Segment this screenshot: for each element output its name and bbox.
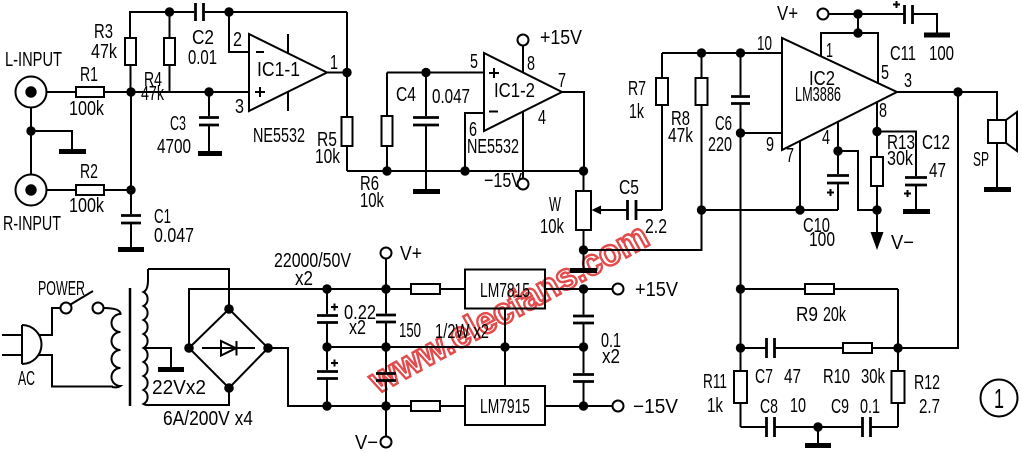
wire C2 to output drop [205, 11, 347, 13]
AC plug [2, 325, 42, 364]
node input ground tap [26, 126, 35, 135]
resistor R10 [775, 343, 898, 353]
capacitor 22000/50V lower [317, 347, 338, 406]
svg-text:C12: C12 [922, 132, 950, 154]
resistor R9 [741, 284, 899, 294]
svg-text:9: 9 [766, 134, 774, 156]
svg-text:x2: x2 [602, 346, 620, 368]
svg-text:8: 8 [527, 53, 535, 75]
resistor R5 [342, 73, 353, 172]
svg-text:1: 1 [994, 383, 1004, 414]
wire center tap [144, 348, 171, 367]
wire pin2 jog [229, 12, 249, 52]
svg-text:6A/200V x4: 6A/200V x4 [163, 408, 253, 430]
svg-text:C11: C11 [890, 43, 916, 65]
wire pin6 jog [465, 113, 484, 171]
node pin4 [833, 146, 842, 155]
ground C12 [903, 209, 930, 214]
resistor 150 upper [411, 284, 465, 294]
svg-text:2.2: 2.2 [645, 216, 667, 238]
node A junction R1/R3 [126, 87, 135, 96]
op-amp U IC2 LM3886 [782, 38, 897, 150]
wire pin9 [741, 132, 783, 134]
resistor R12 [892, 348, 905, 427]
resistor 150 lower [411, 401, 465, 411]
wire LM7915 gnd stem [504, 347, 506, 386]
svg-text:4700: 4700 [157, 136, 191, 158]
ground speaker [984, 187, 1011, 192]
capacitor C10 [827, 151, 849, 210]
resistor R1 [76, 87, 104, 97]
svg-text:V+: V+ [777, 3, 798, 25]
node filter cap bottom [322, 401, 331, 410]
ground input [59, 149, 86, 154]
svg-text:47: 47 [929, 160, 946, 182]
wire V+ terminal stem [385, 259, 387, 290]
wire secondary top to bridge [148, 269, 229, 309]
wire plug bottom [39, 355, 114, 387]
wire LM7815 gnd stem [504, 309, 506, 348]
node V+ stem [381, 284, 390, 293]
svg-text:R12: R12 [914, 372, 940, 394]
wire R2 to bus [104, 189, 131, 191]
svg-text:C5: C5 [619, 177, 639, 199]
wire pin4 [837, 122, 839, 151]
ground C4 [413, 189, 440, 194]
power V- arrow [871, 210, 884, 250]
wire L jack to R1 [47, 91, 77, 93]
svg-text:47k: 47k [141, 83, 165, 105]
svg-text:SP: SP [973, 149, 989, 171]
svg-text:7: 7 [786, 145, 794, 167]
R input jack J2 [16, 175, 47, 206]
svg-text:1k: 1k [629, 101, 645, 123]
svg-text:+15V: +15V [540, 27, 583, 49]
svg-text:C6: C6 [715, 113, 732, 135]
L input jack J1 [16, 77, 47, 108]
wire V+ rail [829, 13, 905, 15]
wire output [897, 91, 958, 93]
capacitor C12 [877, 132, 927, 210]
capacitor C3 [199, 92, 219, 151]
wire mid rail [327, 346, 584, 348]
svg-text:−15V: −15V [484, 170, 523, 192]
capacitor C8 [741, 417, 819, 437]
svg-text:5: 5 [881, 62, 889, 84]
svg-text:IC1-2: IC1-2 [494, 80, 535, 102]
wire R jack to R2 [47, 189, 77, 191]
wire pin1 pin5 V+ [821, 14, 878, 83]
wire ground return [584, 210, 702, 250]
wire V- terminal stem [385, 406, 387, 437]
svg-text:150: 150 [399, 320, 421, 342]
svg-text:R7: R7 [628, 78, 646, 100]
svg-text:x2: x2 [349, 317, 366, 339]
wire jack bus [30, 108, 32, 175]
svg-text:7: 7 [558, 70, 566, 92]
wire secondary bottom to bridge [148, 388, 229, 405]
wire bridge right to V- rail [268, 348, 411, 406]
node IC1-1 output [342, 68, 351, 77]
svg-text:100k: 100k [69, 98, 105, 120]
svg-text:C4: C4 [396, 84, 416, 106]
resistor R6 [382, 73, 393, 172]
wire to input ground [31, 131, 72, 149]
transformer core [129, 288, 132, 406]
wire plug top to switch [39, 308, 61, 335]
ground C3 [198, 151, 222, 156]
svg-text:C7: C7 [755, 366, 773, 388]
resistor R11 [734, 348, 747, 427]
node bridge top [224, 304, 234, 314]
node pin6 feedback [460, 166, 469, 175]
wire output to feedback rail [346, 12, 348, 73]
page number badge 1 [981, 380, 1018, 417]
wire R1 to node A [104, 91, 131, 93]
svg-text:22Vx2: 22Vx2 [152, 377, 206, 399]
svg-text:NE5532: NE5532 [467, 136, 519, 158]
wire speaker ground stem [996, 143, 998, 187]
svg-text:0.047: 0.047 [432, 86, 470, 108]
node V- stem [381, 401, 390, 410]
wire gnd stem [817, 427, 819, 443]
node C6 top [736, 48, 745, 57]
wire bus node A to node B [130, 92, 132, 190]
capacitor C4 [413, 73, 439, 190]
node C4 top [421, 68, 430, 77]
svg-text:C3: C3 [170, 113, 186, 135]
wire pin4 to -15V [522, 112, 524, 179]
svg-text:AC: AC [18, 368, 35, 390]
node -15 out [579, 401, 588, 410]
svg-text:10k: 10k [315, 146, 341, 168]
capacitor C5 [628, 200, 663, 220]
wire bridge left to V+ rail [189, 289, 411, 348]
wire pin1 output [327, 72, 347, 74]
svg-text:100k: 100k [69, 195, 105, 217]
wire node A to pin3 [131, 91, 249, 93]
svg-text:R1: R1 [80, 64, 98, 86]
wire pin8 to +15V [522, 46, 524, 73]
node pin1/5 V+ tie [853, 28, 862, 37]
resistor R7 [637, 53, 668, 210]
node pot bottom [579, 245, 588, 254]
capacitor C1 [121, 190, 141, 247]
transformer T1 primary coil [104, 308, 121, 387]
node B junction R2 [126, 185, 135, 194]
wire R9 right drop [897, 289, 899, 348]
node feedback right [893, 343, 902, 352]
capacitor C7 [741, 338, 775, 358]
capacitor C11 [893, 1, 937, 33]
svg-text:R11: R11 [703, 371, 727, 393]
capacitor 0.22 lower [376, 347, 396, 406]
node V+ rail [853, 9, 862, 18]
svg-text:5: 5 [470, 51, 478, 73]
node regulator gnd [500, 342, 509, 351]
svg-text:2: 2 [233, 29, 242, 51]
resistor R13 [871, 132, 883, 211]
svg-text:R3: R3 [94, 21, 113, 43]
node filter mid left [322, 342, 331, 351]
svg-text:R2: R2 [80, 161, 98, 183]
svg-text:100: 100 [929, 43, 954, 65]
svg-text:30k: 30k [887, 148, 914, 170]
svg-text:220: 220 [708, 134, 732, 156]
svg-text:NE5532: NE5532 [253, 125, 305, 147]
wire buffer rail [347, 170, 584, 172]
capacitor 0.1 lower [573, 347, 594, 406]
resistor R3 [125, 38, 136, 92]
wire LM7815 out [545, 288, 613, 290]
regulator LM7815 [465, 270, 545, 309]
svg-text:V+: V+ [400, 243, 422, 265]
svg-text:C9: C9 [831, 396, 849, 418]
svg-text:V−: V− [891, 232, 914, 254]
wire pin7 output drop [562, 92, 584, 171]
node R4 top [165, 7, 174, 16]
op-amp IC1-1 [249, 34, 327, 111]
svg-text:1k: 1k [707, 395, 724, 417]
regulator LM7915 [465, 386, 545, 425]
svg-text:x2: x2 [295, 268, 313, 290]
svg-text:V−: V− [355, 432, 378, 453]
svg-text:1: 1 [826, 40, 833, 62]
svg-text:0.1: 0.1 [860, 396, 880, 418]
op-amp IC1-2 [484, 53, 562, 131]
svg-text:30k: 30k [861, 366, 886, 388]
capacitor C2 [196, 3, 204, 21]
terminal V+ [381, 248, 392, 259]
bridge rectifier [189, 309, 268, 388]
ground pot [570, 268, 597, 273]
terminal -15V [518, 179, 529, 190]
potentiometer W 10k [576, 171, 627, 250]
ground C1 [118, 247, 144, 252]
node 0.1 mid [579, 342, 588, 351]
svg-text:−15V: −15V [633, 396, 679, 418]
svg-text:0.047: 0.047 [154, 225, 194, 247]
node +15 out [579, 284, 588, 293]
svg-text:L-INPUT: L-INPUT [5, 49, 62, 71]
svg-text:R9: R9 [796, 304, 818, 326]
svg-text:3: 3 [904, 70, 912, 92]
capacitor 22000/50V upper [317, 289, 338, 347]
node bridge left [184, 343, 194, 353]
svg-text:100: 100 [809, 229, 835, 251]
svg-text:3: 3 [235, 96, 244, 118]
node C3 [204, 87, 213, 96]
svg-text:10k: 10k [360, 190, 385, 212]
wire pin8 mute [876, 102, 878, 132]
svg-text:POWER: POWER [38, 278, 85, 300]
svg-text:LM7915: LM7915 [480, 396, 530, 418]
wire pot ground stem [583, 250, 585, 268]
svg-text:1/2W x2: 1/2W x2 [435, 321, 489, 343]
svg-text:C2: C2 [192, 27, 214, 49]
svg-text:47: 47 [784, 366, 801, 388]
svg-text:0.01: 0.01 [188, 47, 217, 69]
svg-text:LM7815: LM7815 [480, 280, 530, 302]
wire ground net to C10 [702, 209, 839, 211]
wire output to speaker [958, 92, 997, 120]
node bridge right [263, 343, 273, 353]
node V- [872, 205, 881, 214]
capacitor C6 [731, 53, 750, 348]
svg-text:W: W [549, 194, 561, 216]
node bridge bottom [224, 383, 234, 393]
terminal +15V [518, 35, 529, 46]
node mute [872, 127, 881, 136]
resistor R8 [696, 53, 708, 210]
resistor R2 [76, 185, 104, 195]
ground center tap [158, 367, 184, 372]
svg-text:IC1-1: IC1-1 [257, 59, 300, 81]
wire feedback to output [898, 92, 958, 348]
node filter cap top [322, 284, 331, 293]
transformer secondary coil [144, 269, 151, 405]
terminal V+ [818, 9, 829, 20]
terminal +15V out [613, 284, 624, 295]
svg-text:10: 10 [790, 395, 806, 417]
wire pin10 rail [662, 52, 782, 54]
svg-text:C8: C8 [760, 396, 778, 418]
wire pin7 [799, 141, 801, 210]
node pin2 takeoff [224, 7, 233, 16]
terminal V- [381, 437, 392, 448]
svg-text:2.7: 2.7 [919, 396, 940, 418]
resistor R4 [164, 12, 175, 92]
node output [953, 87, 962, 96]
svg-text:1: 1 [330, 52, 338, 74]
switch S1 [61, 291, 104, 314]
svg-text:LM3886: LM3886 [795, 84, 841, 106]
capacitor C9 [818, 417, 898, 437]
node pot top [579, 166, 588, 175]
wire pin4 to V- [838, 151, 877, 210]
node bottom gnd [813, 422, 822, 431]
terminal -15V out [613, 401, 624, 412]
node pin7 gnd [795, 205, 804, 214]
svg-text:10k: 10k [540, 216, 565, 238]
svg-text:10: 10 [757, 33, 772, 55]
svg-text:R-INPUT: R-INPUT [3, 213, 61, 235]
node feedback left [736, 343, 745, 352]
wire LM7915 out [545, 405, 613, 407]
svg-text:20k: 20k [823, 304, 847, 326]
svg-text:47k: 47k [91, 41, 118, 63]
capacitor 0.1 upper [573, 289, 594, 347]
svg-text:47k: 47k [668, 125, 694, 147]
ground feedback [805, 443, 831, 448]
svg-text:+15V: +15V [635, 279, 679, 301]
wire R6 top to pin5 [387, 72, 484, 74]
node pin9 [736, 128, 745, 137]
svg-text:R10: R10 [823, 366, 850, 388]
svg-text:4: 4 [822, 127, 830, 149]
node R9 left [736, 284, 745, 293]
capacitor 0.22 upper [376, 289, 396, 347]
node mid center [381, 342, 390, 351]
node R8 top [697, 48, 706, 57]
watermark www.elecfans.com [361, 215, 655, 402]
node R8 bottom [697, 205, 706, 214]
node R6 bottom [382, 166, 391, 175]
svg-text:8: 8 [879, 100, 887, 122]
speaker SP [988, 112, 1017, 151]
ground C11 [924, 33, 950, 38]
svg-text:4: 4 [538, 107, 546, 129]
feedback rail top [130, 12, 194, 38]
